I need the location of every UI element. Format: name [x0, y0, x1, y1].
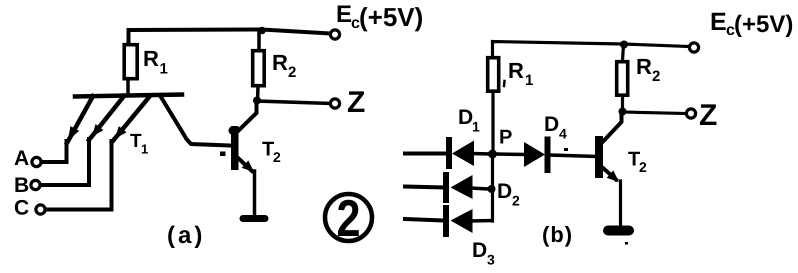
- terminal: Ec supply terminal (b): [689, 43, 698, 52]
- transistor T2 collector (b): [603, 115, 622, 142]
- svg-text:E: E: [710, 8, 727, 36]
- svg-text:(a): (a): [167, 222, 205, 249]
- svg-text:2: 2: [337, 190, 361, 248]
- wire: T1 collector to T2 base (a): [161, 97, 231, 146]
- diode D2: [446, 175, 489, 200]
- node: rail junction above R2 (a): [258, 27, 266, 35]
- label R2 (a): [272, 50, 296, 81]
- svg-text:Z: Z: [347, 86, 365, 119]
- wire: Z output (b): [623, 112, 687, 114]
- label Z (a): [347, 86, 365, 119]
- terminal: input A circle: [32, 157, 41, 166]
- label C: [14, 197, 29, 220]
- node: D2 junction dot: [488, 185, 496, 193]
- wire: emitter1 dogleg to input A: [41, 141, 67, 162]
- stray tick before R1 label (b): [503, 81, 506, 86]
- label T2 (a): [262, 139, 281, 166]
- svg-text:1: 1: [525, 72, 533, 89]
- wire: node P down to D2/D3 (b): [491, 154, 494, 221]
- svg-text:2: 2: [512, 193, 520, 209]
- svg-text:2: 2: [273, 149, 281, 165]
- wire: input 2 (b): [405, 187, 444, 188]
- terminal: Ec supply terminal (a): [330, 30, 339, 39]
- svg-text:D: D: [458, 106, 473, 129]
- wire: +5V top rail (a): [129, 30, 331, 45]
- transistor T2 base bar (b): [595, 136, 603, 178]
- node: Z tap junction (a): [253, 97, 261, 105]
- label Ec(+5V) (a): [336, 1, 423, 32]
- terminal: input C circle: [36, 205, 45, 214]
- label R1 (b): [508, 58, 533, 89]
- svg-text:P: P: [499, 127, 512, 149]
- wire: rail to R2 top (a): [257, 31, 261, 51]
- label D2: [497, 180, 520, 209]
- svg-text:D: D: [472, 239, 487, 262]
- svg-text:3: 3: [487, 252, 495, 268]
- wire: rail to R2 top (b): [623, 45, 624, 62]
- transistor T2 emitter (a): [238, 158, 255, 216]
- label (b): [542, 222, 573, 247]
- svg-text:Z: Z: [699, 99, 717, 132]
- svg-text:1: 1: [472, 119, 480, 135]
- diode D1: [449, 140, 489, 166]
- wire: input 1 (b): [405, 152, 447, 156]
- wire: +5V top rail (b): [493, 42, 689, 58]
- transistor T1 emitter 3: [112, 96, 150, 142]
- transistor T2 base bar (a): [229, 126, 239, 170]
- label D3: [472, 239, 495, 268]
- resistor R2 (b): [617, 62, 628, 95]
- label R1 (a): [143, 46, 168, 78]
- transistor T1 emitter 1: [67, 96, 93, 143]
- label P: [499, 127, 512, 149]
- wire: R2 bottom to Z node (b): [621, 97, 624, 109]
- label D1: [458, 106, 480, 135]
- svg-text:(+5V): (+5V): [359, 2, 423, 32]
- svg-text:1: 1: [141, 142, 148, 157]
- svg-text:2: 2: [288, 64, 296, 81]
- speck below ground (b): [625, 242, 628, 245]
- svg-text:2: 2: [639, 159, 647, 175]
- svg-text:R: R: [636, 54, 652, 79]
- label R2 (b): [636, 54, 660, 85]
- transistor T2 emitter (b): [603, 168, 621, 227]
- label A: [14, 147, 29, 170]
- wire: R1 bottom to T1 base (a): [126, 80, 130, 95]
- label Z (b): [699, 99, 717, 132]
- svg-text:C: C: [14, 197, 29, 220]
- diode D3: [446, 208, 492, 234]
- svg-text:(+5V): (+5V): [734, 11, 793, 38]
- svg-text:R: R: [143, 46, 159, 71]
- svg-text:B: B: [14, 174, 29, 197]
- svg-text:1: 1: [160, 61, 168, 78]
- node: small dot near T2 base (a): [220, 152, 226, 157]
- svg-text:D: D: [544, 113, 559, 136]
- node: Z tap junction (b): [619, 108, 627, 116]
- svg-text:4: 4: [559, 126, 567, 142]
- svg-text:(b): (b): [542, 222, 573, 247]
- terminal: Z output circle (b): [686, 109, 695, 118]
- ground (a): [243, 215, 265, 222]
- svg-text:2: 2: [652, 68, 660, 85]
- svg-text:D: D: [497, 180, 512, 203]
- wire: emitter3 dogleg to input C: [45, 141, 112, 210]
- label (a): [167, 222, 205, 249]
- transistor T1 emitter 2: [89, 96, 124, 140]
- wire: emitter2 dogleg to input B: [41, 139, 90, 185]
- svg-text:A: A: [14, 147, 29, 170]
- label Ec(+5V) (b): [710, 8, 793, 39]
- node: rail junction above R2 (b): [620, 41, 628, 49]
- wire: R1 bottom to node P (b): [491, 93, 494, 152]
- wire: R2 bottom to Z node (a): [256, 87, 260, 102]
- terminal: Z output circle (a): [330, 99, 339, 108]
- node P junction: [488, 150, 497, 159]
- resistor R1 (b): [488, 58, 499, 91]
- label D4: [544, 113, 567, 142]
- transistor T1 base bar (multi-emitter): [75, 95, 182, 97]
- resistor R2 (a): [253, 51, 265, 86]
- resistor R1 (a): [124, 45, 137, 79]
- svg-text:E: E: [336, 1, 352, 28]
- svg-text:R: R: [508, 58, 524, 83]
- diode D4: [496, 140, 596, 171]
- transistor T2 collector (a): [237, 100, 257, 132]
- svg-text:R: R: [272, 50, 288, 75]
- ground (b): [608, 226, 629, 236]
- wire: input 3 (b): [405, 219, 444, 221]
- label B: [14, 174, 29, 197]
- wire: Z output (a): [257, 101, 330, 104]
- figure number 2 (circled): [325, 190, 372, 248]
- speck near D4: [564, 148, 568, 151]
- terminal: input B circle: [31, 180, 40, 189]
- label T2 (b): [628, 149, 647, 176]
- label T1: [130, 131, 148, 157]
